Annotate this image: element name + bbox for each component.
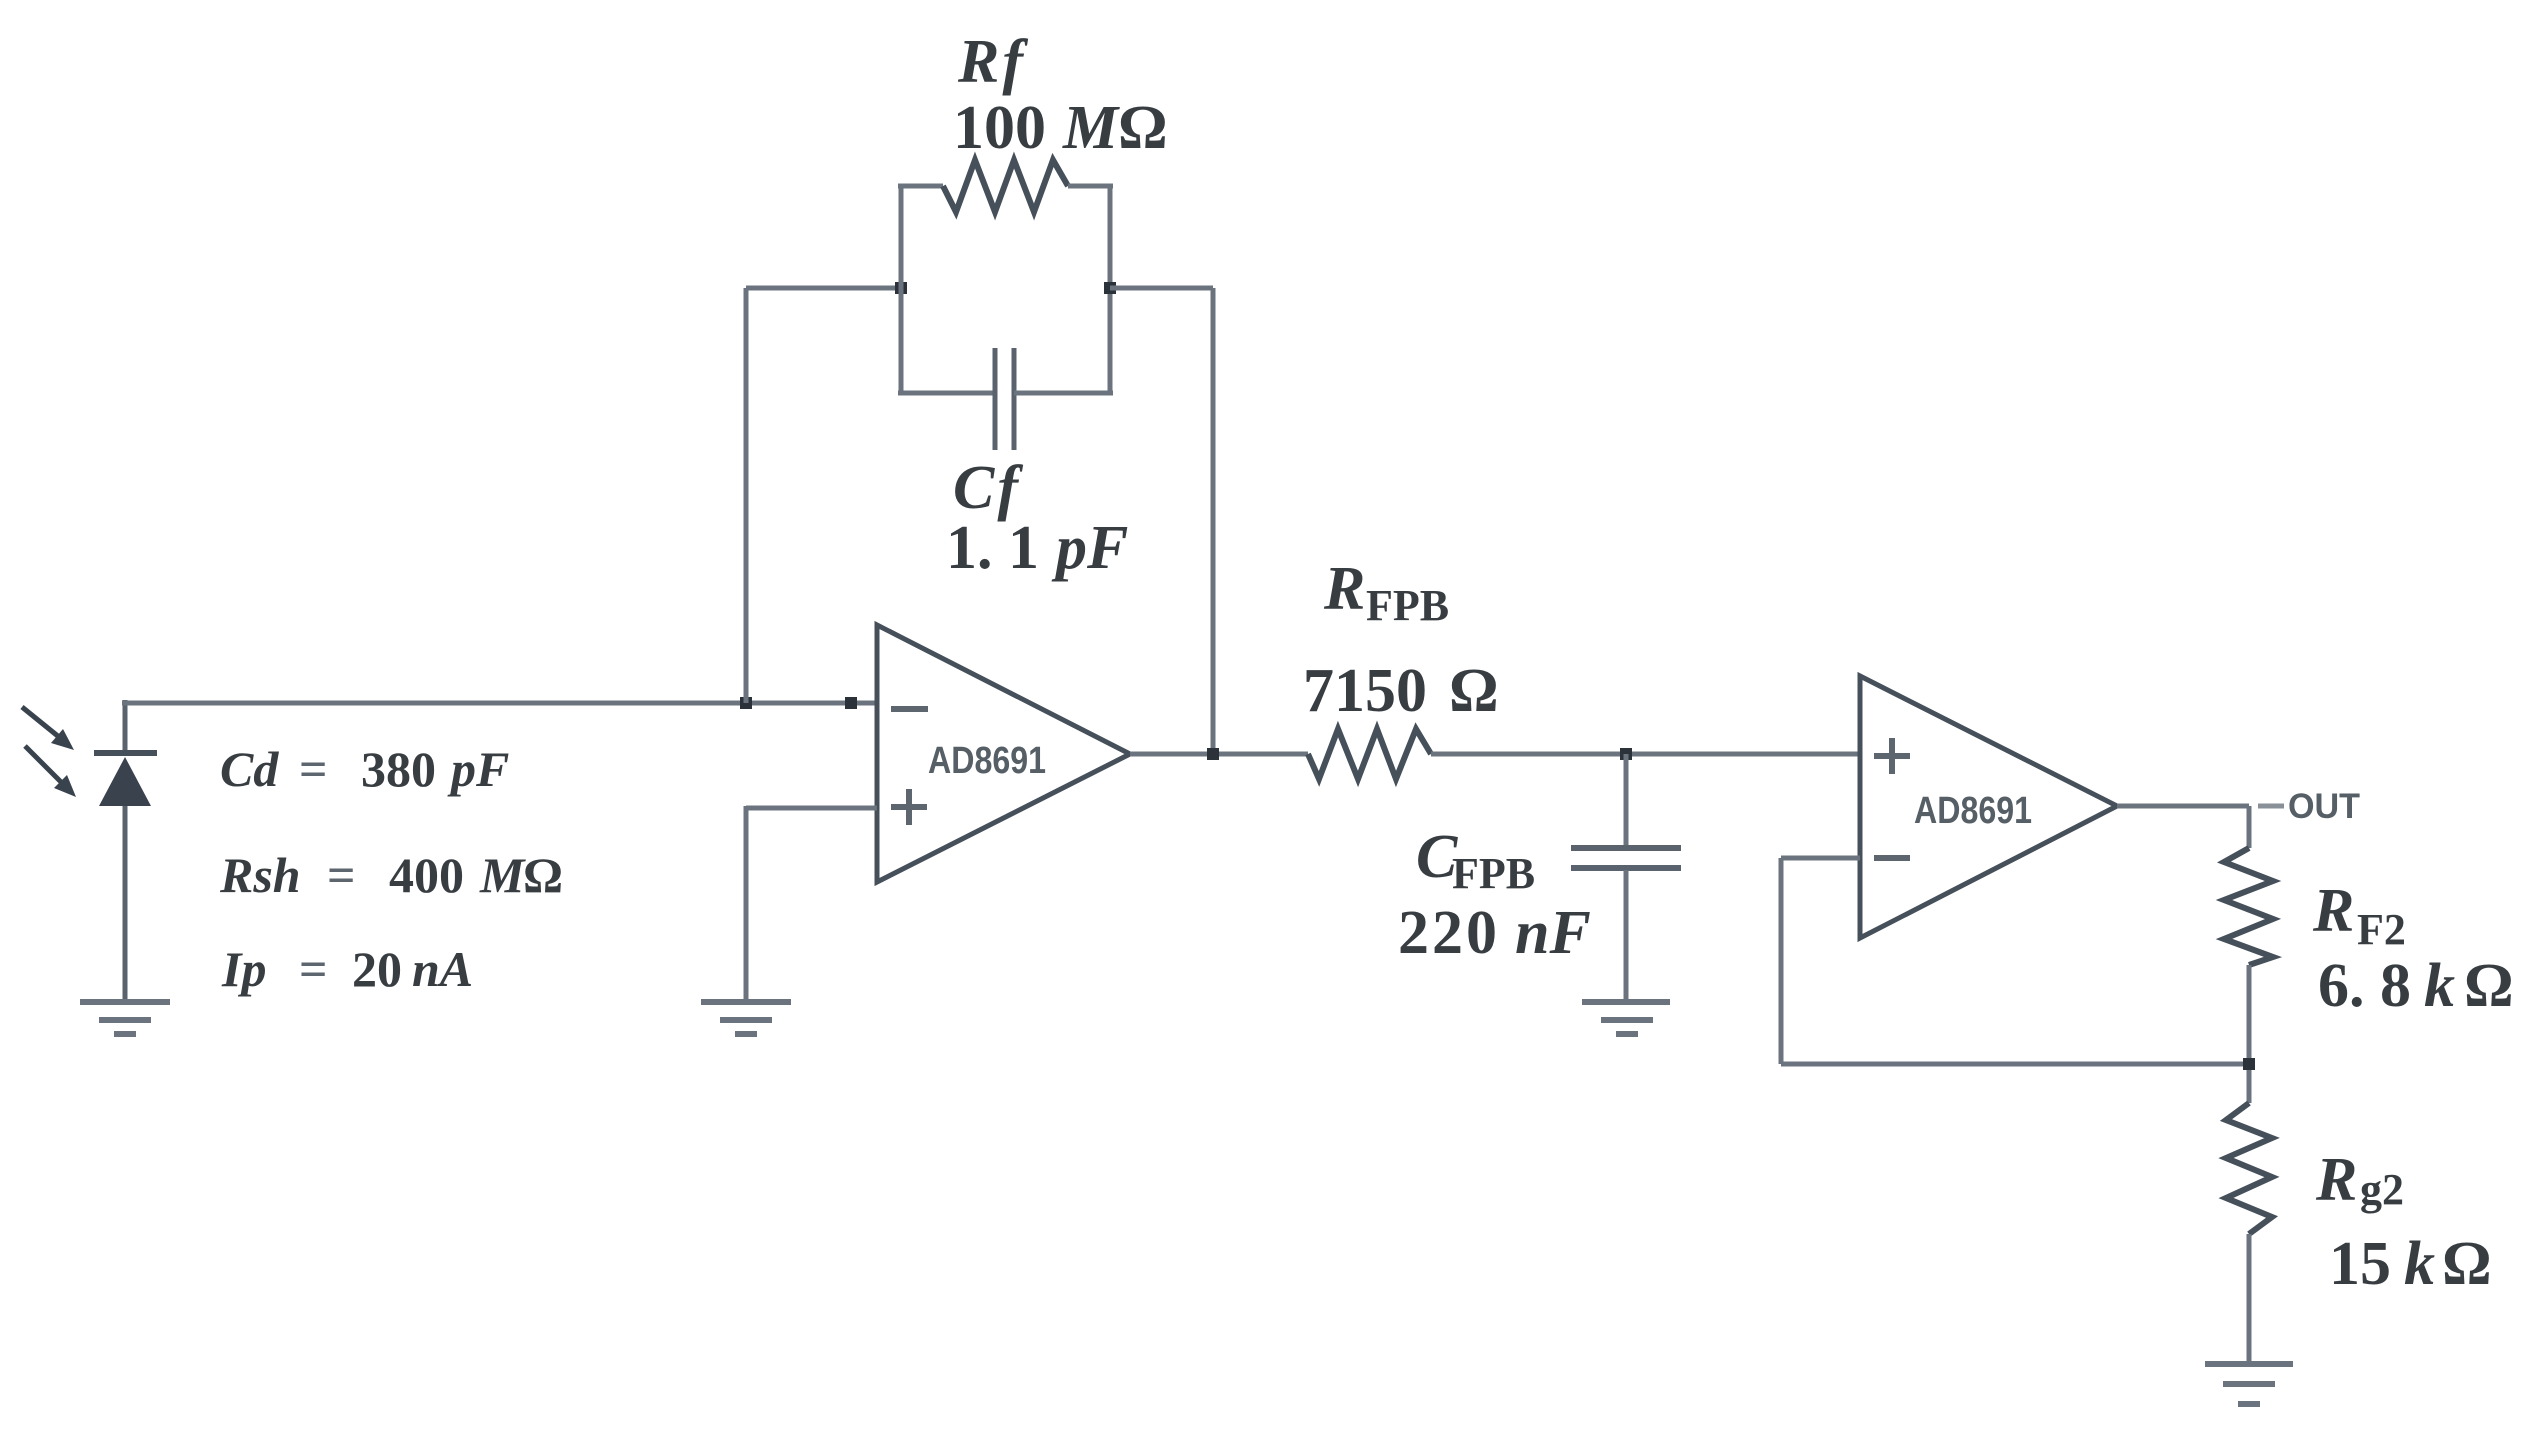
wire: photodiode to inverting input (node IN-): [122, 701, 877, 706]
svg-text:Rf: Rf: [957, 28, 1028, 96]
wire: feedback box bottom right: [1014, 391, 1113, 396]
svg-text:1. 1pF: 1. 1pF: [946, 514, 1128, 582]
resistor R_F2: [2224, 848, 2273, 965]
ground (output divider): [2205, 1364, 2293, 1404]
svg-text:AD8691: AD8691: [1914, 790, 2032, 832]
ground (photodiode): [80, 1002, 170, 1034]
op-amp U1 plus sign: [891, 789, 927, 825]
photodiode D1: [94, 700, 157, 1002]
svg-text:R: R: [2312, 877, 2354, 945]
capacitor Cf: [995, 348, 1014, 450]
svg-text:Cf: Cf: [953, 454, 1023, 522]
svg-text:FPB: FPB: [1366, 581, 1449, 630]
wire: filter node to U2: [1431, 752, 1860, 757]
svg-text:g2: g2: [2360, 1165, 2404, 1214]
wire: feedback to output vertical: [1110, 288, 1213, 754]
wire: feedback box left vertical: [899, 186, 904, 393]
wire: feedback box bottom left: [898, 391, 995, 396]
svg-text:15kΩ: 15kΩ: [2329, 1230, 2492, 1298]
node junction dot (feedback tap): [740, 697, 752, 709]
svg-text:F2: F2: [2357, 905, 2406, 954]
svg-text:R: R: [1323, 555, 1365, 623]
junction dot (box right): [1104, 282, 1116, 294]
photodiode D1 light arrow 1: [22, 707, 74, 750]
svg-text:100MΩ: 100MΩ: [953, 94, 1168, 162]
wire: R_F2 to junction: [2247, 965, 2252, 1103]
svg-text:OUT: OUT: [2288, 787, 2360, 826]
wire: U2 inverting feedback: [1781, 858, 2249, 1064]
wire: non-inverting input U1: [746, 806, 877, 1002]
op-amp U2 minus sign: [1874, 855, 1910, 861]
op-amp U1: [877, 625, 1130, 882]
op-amp U2 plus sign: [1874, 738, 1910, 774]
svg-text:Rsh=400MΩ: Rsh=400MΩ: [219, 847, 563, 903]
resistor R_FPB: [1308, 729, 1431, 779]
wire: feedback left vertical: [744, 288, 749, 703]
wire: R_g2 to ground: [2247, 1234, 2252, 1364]
svg-text:Cd=380pF: Cd=380pF: [220, 741, 509, 797]
op-amp U1 minus sign: [891, 706, 928, 712]
resistor R_g2: [2226, 1103, 2272, 1234]
svg-text:FPB: FPB: [1452, 849, 1535, 898]
wire: feedback top horizontal into box: [746, 286, 901, 291]
resistor Rf: [943, 160, 1068, 212]
OUT tick: [2258, 804, 2284, 809]
svg-text:AD8691: AD8691: [928, 740, 1046, 782]
svg-text:7150Ω: 7150Ω: [1303, 657, 1499, 725]
node junction dot (near op-amp input): [845, 697, 857, 709]
svg-text:6. 8kΩ: 6. 8kΩ: [2318, 952, 2514, 1020]
junction dot (U1 output / feedback): [1207, 748, 1219, 760]
op-amp U2: [1860, 676, 2117, 938]
svg-text:220nF: 220nF: [1398, 899, 1591, 967]
ground (C_FPB): [1582, 1002, 1670, 1034]
ground (U1 non-inverting input): [701, 1002, 791, 1034]
wire: feedback box top right stub: [1068, 184, 1113, 189]
svg-text:Ip=20nA: Ip=20nA: [221, 941, 473, 997]
wire: U1 output: [1130, 752, 1308, 757]
wire: U2 output: [2117, 806, 2249, 848]
junction dot (C_FPB tap): [1620, 748, 1632, 760]
svg-text:R: R: [2315, 1146, 2357, 1214]
photodiode D1 light arrow 2: [25, 746, 76, 797]
wire: feedback box right vertical: [1108, 186, 1113, 393]
wire: feedback box top left stub: [898, 184, 943, 189]
junction dot (box left): [895, 282, 907, 294]
capacitor C_FPB: [1571, 754, 1681, 1002]
junction dot (divider node): [2243, 1058, 2255, 1070]
